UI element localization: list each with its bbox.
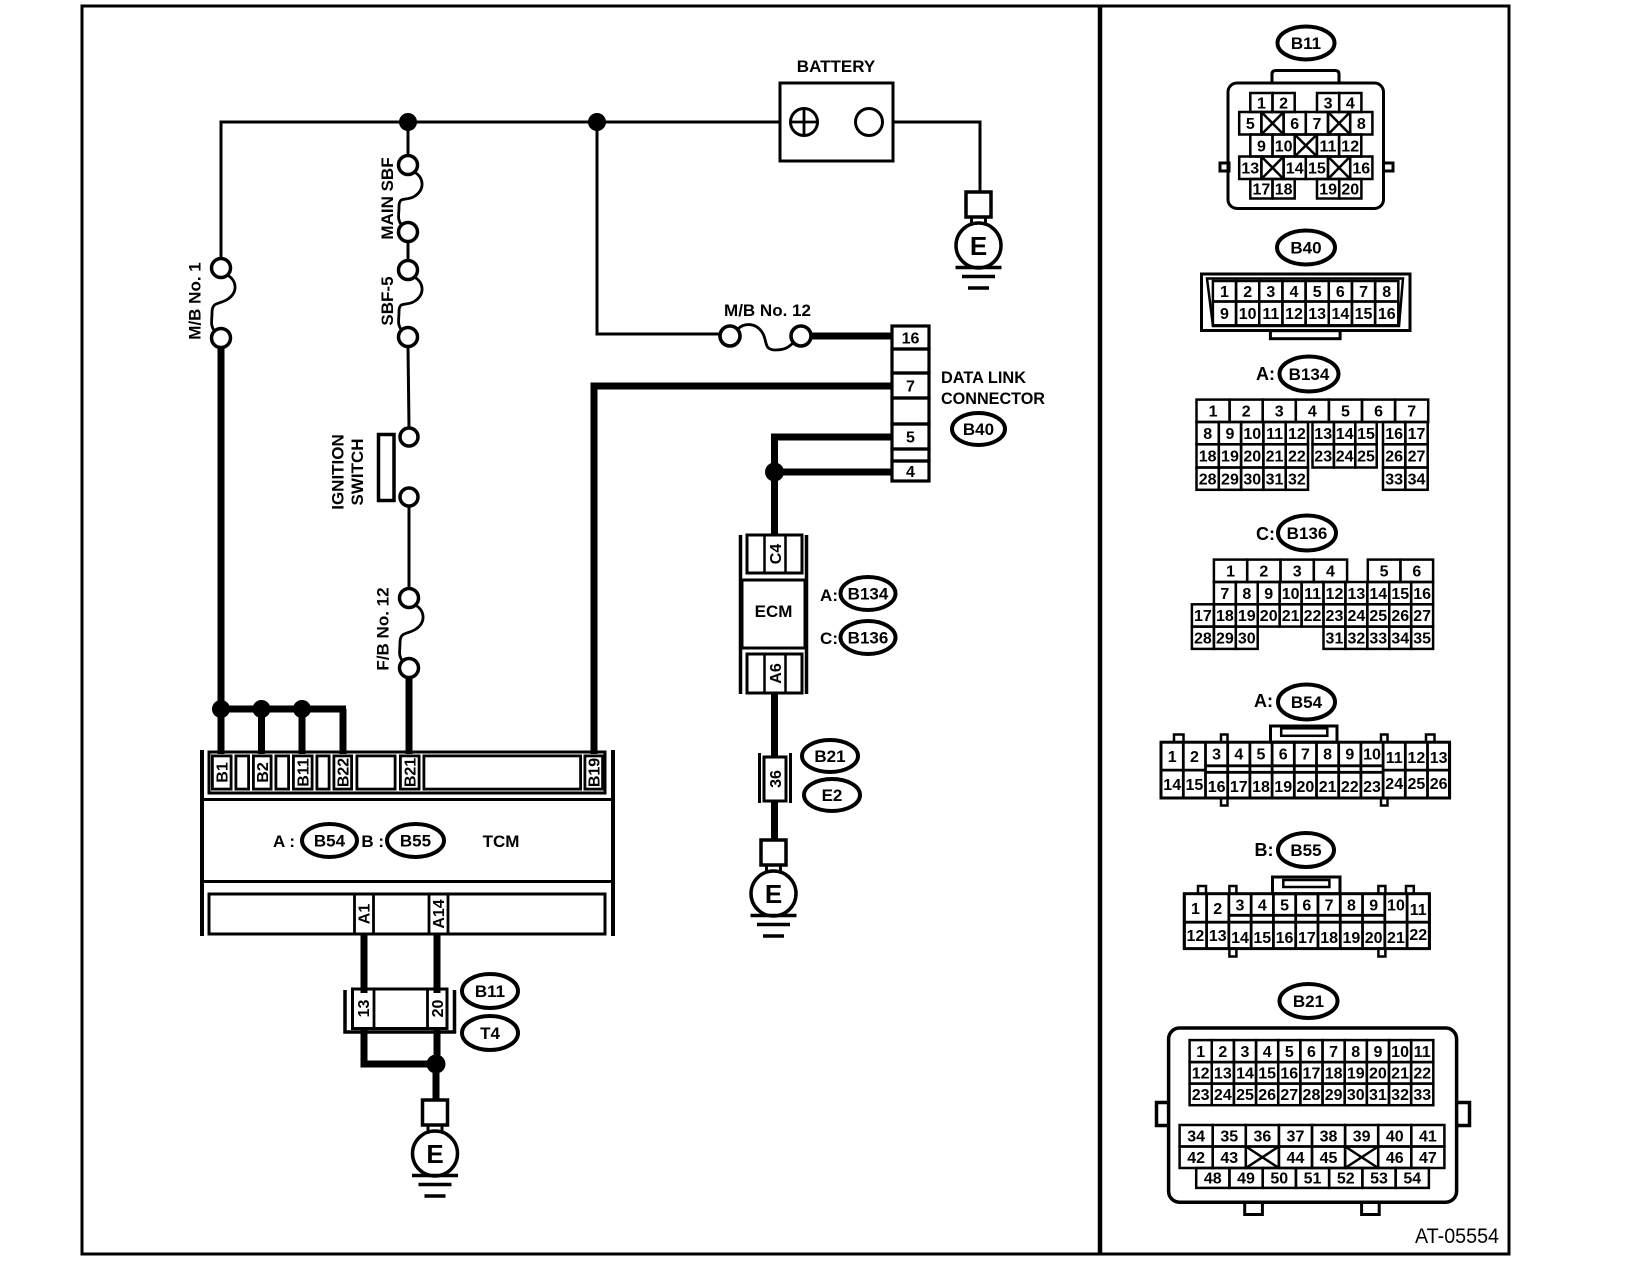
svg-text:5: 5 <box>1246 116 1255 133</box>
svg-text:33: 33 <box>1369 631 1387 648</box>
svg-text:7: 7 <box>906 378 915 395</box>
svg-text:A14: A14 <box>431 899 448 928</box>
svg-text:22: 22 <box>1341 779 1359 796</box>
svg-text:BATTERY: BATTERY <box>797 57 876 76</box>
svg-text:IGNITION: IGNITION <box>329 434 348 510</box>
svg-text:B54: B54 <box>1291 693 1323 712</box>
svg-text:10: 10 <box>1387 897 1405 914</box>
svg-text:B1: B1 <box>215 762 232 783</box>
svg-text:20: 20 <box>1369 1066 1387 1083</box>
svg-text:20: 20 <box>1365 930 1383 947</box>
svg-text:17: 17 <box>1253 182 1271 199</box>
svg-text:36: 36 <box>768 770 785 788</box>
svg-text:11: 11 <box>1410 902 1427 919</box>
svg-text:16: 16 <box>1280 1066 1298 1083</box>
svg-text:18: 18 <box>1275 182 1293 199</box>
svg-text:13: 13 <box>356 1000 373 1018</box>
svg-text:49: 49 <box>1237 1171 1255 1188</box>
svg-text:35: 35 <box>1220 1129 1238 1146</box>
svg-text:24: 24 <box>1347 608 1365 625</box>
svg-text:53: 53 <box>1370 1171 1388 1188</box>
svg-text:E2: E2 <box>822 786 843 805</box>
svg-text:B134: B134 <box>1289 365 1330 384</box>
svg-text:A6: A6 <box>768 663 785 684</box>
svg-text:B:: B: <box>1255 840 1274 860</box>
svg-text:22: 22 <box>1413 1066 1431 1083</box>
svg-text:25: 25 <box>1408 776 1426 793</box>
svg-text:8: 8 <box>1382 284 1391 301</box>
svg-text:B2: B2 <box>255 762 272 783</box>
svg-text:3: 3 <box>1241 1044 1250 1061</box>
svg-text:1: 1 <box>1220 284 1229 301</box>
svg-text:2: 2 <box>1242 404 1251 421</box>
svg-text:8: 8 <box>1357 116 1366 133</box>
svg-text:B54: B54 <box>314 832 346 851</box>
svg-text:A:: A: <box>1256 364 1275 384</box>
svg-text:11: 11 <box>1266 426 1283 443</box>
svg-text:1: 1 <box>1191 901 1200 918</box>
svg-text:B55: B55 <box>400 832 431 851</box>
svg-text:9: 9 <box>1373 1044 1382 1061</box>
svg-text:1: 1 <box>1168 749 1177 766</box>
svg-text:39: 39 <box>1353 1129 1371 1146</box>
svg-text:8: 8 <box>1323 747 1332 764</box>
svg-text:6: 6 <box>1302 897 1311 914</box>
svg-text:17: 17 <box>1194 608 1212 625</box>
svg-text:M/B No. 1: M/B No. 1 <box>186 262 205 339</box>
svg-text:9: 9 <box>1220 306 1229 323</box>
svg-text:34: 34 <box>1187 1129 1205 1146</box>
svg-text:31: 31 <box>1266 471 1284 488</box>
svg-text:1: 1 <box>1209 404 1218 421</box>
svg-text:4: 4 <box>1234 747 1243 764</box>
svg-text:10: 10 <box>1282 586 1300 603</box>
svg-text:9: 9 <box>1345 747 1354 764</box>
svg-text:3: 3 <box>1324 95 1333 112</box>
svg-text:5: 5 <box>1341 404 1350 421</box>
svg-text:17: 17 <box>1230 779 1248 796</box>
svg-text:6: 6 <box>1412 564 1421 581</box>
svg-text:16: 16 <box>1352 161 1370 178</box>
svg-text:36: 36 <box>1253 1129 1271 1146</box>
svg-text:32: 32 <box>1347 631 1365 648</box>
svg-text:1: 1 <box>1257 95 1266 112</box>
svg-text:18: 18 <box>1320 930 1338 947</box>
svg-text:B21: B21 <box>1293 992 1324 1011</box>
svg-text:7: 7 <box>1301 747 1310 764</box>
svg-text:20: 20 <box>1243 449 1261 466</box>
svg-text:5: 5 <box>1380 564 1389 581</box>
svg-text:B21: B21 <box>814 747 845 766</box>
svg-text:30: 30 <box>1347 1087 1365 1104</box>
svg-text:9: 9 <box>1225 426 1234 443</box>
svg-text:33: 33 <box>1413 1087 1431 1104</box>
svg-text:22: 22 <box>1409 927 1427 944</box>
svg-text:25: 25 <box>1357 449 1375 466</box>
svg-text:31: 31 <box>1369 1087 1387 1104</box>
svg-text:12: 12 <box>1187 928 1205 945</box>
svg-text:44: 44 <box>1287 1150 1305 1167</box>
svg-text:4: 4 <box>1290 284 1299 301</box>
svg-text:51: 51 <box>1304 1171 1322 1188</box>
svg-text:28: 28 <box>1303 1087 1321 1104</box>
svg-text:AT-05554: AT-05554 <box>1415 1224 1499 1248</box>
svg-text:8: 8 <box>1203 426 1212 443</box>
svg-text:6: 6 <box>1279 747 1288 764</box>
svg-text:7: 7 <box>1312 116 1321 133</box>
svg-text:B19: B19 <box>587 758 604 787</box>
svg-text:50: 50 <box>1270 1171 1288 1188</box>
svg-text:47: 47 <box>1419 1150 1437 1167</box>
svg-text:C:: C: <box>1256 524 1275 544</box>
svg-text:14: 14 <box>1231 930 1249 947</box>
svg-text:3: 3 <box>1275 404 1284 421</box>
svg-text:24: 24 <box>1214 1087 1232 1104</box>
svg-text:32: 32 <box>1288 471 1306 488</box>
svg-text:27: 27 <box>1280 1087 1298 1104</box>
svg-text:14: 14 <box>1163 777 1181 794</box>
svg-text:12: 12 <box>1192 1066 1210 1083</box>
svg-text:2: 2 <box>1259 564 1268 581</box>
svg-text:27: 27 <box>1413 608 1431 625</box>
svg-text:30: 30 <box>1243 471 1261 488</box>
svg-text:17: 17 <box>1298 930 1316 947</box>
svg-text:B22: B22 <box>336 758 353 787</box>
svg-text:8: 8 <box>1347 897 1356 914</box>
svg-text:11: 11 <box>1262 306 1279 323</box>
svg-text:3: 3 <box>1212 747 1221 764</box>
svg-text:1: 1 <box>1196 1044 1205 1061</box>
svg-text:54: 54 <box>1403 1171 1421 1188</box>
svg-text:A1: A1 <box>357 904 374 925</box>
svg-text:17: 17 <box>1408 426 1426 443</box>
svg-text:B21: B21 <box>403 758 420 787</box>
svg-text:B136: B136 <box>848 629 889 648</box>
svg-text:8: 8 <box>1242 586 1251 603</box>
svg-text:B :: B : <box>361 832 384 851</box>
svg-text:7: 7 <box>1407 404 1416 421</box>
svg-text:MAIN SBF: MAIN SBF <box>378 157 397 239</box>
svg-text:12: 12 <box>1408 750 1426 767</box>
svg-text:19: 19 <box>1221 449 1239 466</box>
svg-text:B55: B55 <box>1290 841 1321 860</box>
svg-text:45: 45 <box>1320 1150 1338 1167</box>
svg-text:2: 2 <box>1218 1044 1227 1061</box>
svg-text:52: 52 <box>1337 1171 1355 1188</box>
svg-text:A :: A : <box>273 832 295 851</box>
svg-text:17: 17 <box>1303 1066 1321 1083</box>
svg-text:22: 22 <box>1288 449 1306 466</box>
svg-text:15: 15 <box>1253 930 1271 947</box>
svg-text:2: 2 <box>1190 749 1199 766</box>
svg-text:15: 15 <box>1357 426 1375 443</box>
svg-text:3: 3 <box>1236 897 1245 914</box>
svg-text:13: 13 <box>1347 586 1365 603</box>
svg-text:12: 12 <box>1341 138 1359 155</box>
svg-text:8: 8 <box>1351 1044 1360 1061</box>
svg-text:25: 25 <box>1369 608 1387 625</box>
svg-text:33: 33 <box>1385 471 1403 488</box>
svg-text:38: 38 <box>1320 1129 1338 1146</box>
svg-text:9: 9 <box>1369 897 1378 914</box>
svg-text:9: 9 <box>1257 138 1266 155</box>
svg-text:2: 2 <box>1213 901 1222 918</box>
svg-text:F/B No. 12: F/B No. 12 <box>374 587 393 670</box>
svg-text:15: 15 <box>1186 777 1204 794</box>
svg-text:16: 16 <box>1413 586 1431 603</box>
svg-text:E: E <box>765 879 782 909</box>
svg-text:22: 22 <box>1304 608 1322 625</box>
svg-text:16: 16 <box>902 330 920 347</box>
svg-text:18: 18 <box>1325 1066 1343 1083</box>
svg-text:21: 21 <box>1391 1066 1409 1083</box>
svg-text:15: 15 <box>1391 586 1409 603</box>
svg-text:29: 29 <box>1221 471 1239 488</box>
svg-text:25: 25 <box>1236 1087 1254 1104</box>
svg-text:5: 5 <box>906 429 915 446</box>
svg-text:7: 7 <box>1220 586 1229 603</box>
svg-text:15: 15 <box>1308 161 1326 178</box>
svg-text:11: 11 <box>1320 138 1337 155</box>
svg-text:A:: A: <box>1254 691 1273 711</box>
svg-text:4: 4 <box>1346 95 1355 112</box>
svg-text:7: 7 <box>1325 897 1334 914</box>
svg-text:19: 19 <box>1319 182 1337 199</box>
svg-text:28: 28 <box>1199 471 1217 488</box>
svg-text:B136: B136 <box>1287 524 1328 543</box>
svg-text:5: 5 <box>1285 1044 1294 1061</box>
svg-text:48: 48 <box>1204 1171 1222 1188</box>
svg-text:C:: C: <box>820 629 838 648</box>
svg-text:10: 10 <box>1243 426 1261 443</box>
svg-text:20: 20 <box>1297 779 1315 796</box>
svg-text:4: 4 <box>1263 1044 1272 1061</box>
svg-text:24: 24 <box>1385 776 1403 793</box>
svg-text:16: 16 <box>1208 779 1226 796</box>
svg-text:19: 19 <box>1347 1066 1365 1083</box>
svg-text:16: 16 <box>1276 930 1294 947</box>
svg-text:10: 10 <box>1391 1044 1409 1061</box>
svg-text:28: 28 <box>1194 631 1212 648</box>
svg-text:13: 13 <box>1308 306 1326 323</box>
svg-text:26: 26 <box>1430 776 1448 793</box>
svg-text:1: 1 <box>1226 564 1235 581</box>
svg-text:3: 3 <box>1266 284 1275 301</box>
svg-text:5: 5 <box>1280 897 1289 914</box>
svg-text:26: 26 <box>1385 449 1403 466</box>
svg-text:23: 23 <box>1326 608 1344 625</box>
svg-text:16: 16 <box>1378 306 1396 323</box>
svg-text:ECM: ECM <box>755 602 793 621</box>
svg-text:E: E <box>970 231 987 261</box>
svg-text:21: 21 <box>1266 449 1284 466</box>
svg-text:31: 31 <box>1326 631 1344 648</box>
svg-text:19: 19 <box>1238 608 1256 625</box>
svg-text:21: 21 <box>1282 608 1300 625</box>
svg-text:4: 4 <box>906 464 915 481</box>
svg-text:10: 10 <box>1363 747 1381 764</box>
svg-text:CONNECTOR: CONNECTOR <box>941 389 1045 408</box>
svg-text:B40: B40 <box>1290 239 1321 258</box>
svg-text:30: 30 <box>1238 631 1256 648</box>
svg-text:37: 37 <box>1287 1129 1305 1146</box>
svg-text:43: 43 <box>1220 1150 1238 1167</box>
svg-text:TCM: TCM <box>483 832 520 851</box>
svg-text:13: 13 <box>1430 750 1448 767</box>
svg-text:6: 6 <box>1290 116 1299 133</box>
svg-text:B40: B40 <box>963 420 994 439</box>
svg-text:19: 19 <box>1274 779 1292 796</box>
svg-text:E: E <box>426 1139 443 1169</box>
svg-text:24: 24 <box>1336 449 1354 466</box>
svg-text:5: 5 <box>1257 747 1266 764</box>
svg-text:23: 23 <box>1363 779 1381 796</box>
svg-text:A:: A: <box>820 586 838 605</box>
svg-text:42: 42 <box>1187 1150 1205 1167</box>
svg-text:B11: B11 <box>475 982 505 1001</box>
svg-text:7: 7 <box>1329 1044 1338 1061</box>
svg-text:32: 32 <box>1391 1087 1409 1104</box>
svg-text:T4: T4 <box>480 1024 500 1043</box>
svg-text:18: 18 <box>1252 779 1270 796</box>
svg-text:6: 6 <box>1374 404 1383 421</box>
svg-text:20: 20 <box>430 1000 447 1018</box>
svg-text:10: 10 <box>1275 138 1293 155</box>
svg-text:3: 3 <box>1293 564 1302 581</box>
svg-text:DATA LINK: DATA LINK <box>941 368 1027 387</box>
svg-text:6: 6 <box>1336 284 1345 301</box>
svg-text:SBF-5: SBF-5 <box>378 276 397 325</box>
svg-text:7: 7 <box>1359 284 1368 301</box>
svg-text:15: 15 <box>1355 306 1373 323</box>
svg-text:SWITCH: SWITCH <box>348 438 367 505</box>
svg-text:29: 29 <box>1216 631 1234 648</box>
svg-text:12: 12 <box>1326 586 1344 603</box>
svg-text:18: 18 <box>1199 449 1217 466</box>
svg-text:41: 41 <box>1419 1129 1437 1146</box>
svg-text:21: 21 <box>1387 930 1405 947</box>
svg-text:26: 26 <box>1391 608 1409 625</box>
svg-text:23: 23 <box>1314 449 1332 466</box>
svg-text:5: 5 <box>1313 284 1322 301</box>
svg-text:B11: B11 <box>296 758 313 787</box>
svg-text:40: 40 <box>1386 1129 1404 1146</box>
svg-text:2: 2 <box>1243 284 1252 301</box>
svg-text:34: 34 <box>1391 631 1409 648</box>
svg-text:4: 4 <box>1308 404 1317 421</box>
svg-text:20: 20 <box>1341 182 1359 199</box>
svg-text:M/B No. 12: M/B No. 12 <box>724 301 811 320</box>
svg-text:15: 15 <box>1258 1066 1276 1083</box>
svg-text:21: 21 <box>1319 779 1337 796</box>
svg-text:C4: C4 <box>768 544 785 565</box>
svg-text:B134: B134 <box>848 585 889 604</box>
svg-text:13: 13 <box>1314 426 1332 443</box>
svg-text:13: 13 <box>1209 928 1227 945</box>
svg-text:34: 34 <box>1408 471 1426 488</box>
svg-text:46: 46 <box>1386 1150 1404 1167</box>
svg-text:29: 29 <box>1325 1087 1343 1104</box>
svg-text:18: 18 <box>1216 608 1234 625</box>
svg-text:19: 19 <box>1343 930 1361 947</box>
svg-text:13: 13 <box>1214 1066 1232 1083</box>
svg-text:4: 4 <box>1258 897 1267 914</box>
svg-text:35: 35 <box>1413 631 1431 648</box>
svg-text:12: 12 <box>1285 306 1303 323</box>
svg-text:20: 20 <box>1260 608 1278 625</box>
svg-text:9: 9 <box>1264 586 1273 603</box>
svg-text:27: 27 <box>1408 449 1426 466</box>
svg-text:14: 14 <box>1286 161 1304 178</box>
svg-text:14: 14 <box>1336 426 1354 443</box>
svg-text:14: 14 <box>1369 586 1387 603</box>
svg-text:B11: B11 <box>1291 34 1321 53</box>
svg-text:6: 6 <box>1307 1044 1316 1061</box>
svg-text:11: 11 <box>1386 750 1403 767</box>
svg-text:23: 23 <box>1192 1087 1210 1104</box>
svg-text:11: 11 <box>1304 586 1321 603</box>
svg-text:4: 4 <box>1326 564 1335 581</box>
svg-text:13: 13 <box>1241 161 1259 178</box>
svg-text:26: 26 <box>1258 1087 1276 1104</box>
svg-text:2: 2 <box>1279 95 1288 112</box>
svg-text:16: 16 <box>1385 426 1403 443</box>
svg-text:11: 11 <box>1414 1044 1431 1061</box>
svg-text:12: 12 <box>1288 426 1306 443</box>
svg-text:10: 10 <box>1239 306 1257 323</box>
svg-text:14: 14 <box>1331 306 1349 323</box>
svg-text:14: 14 <box>1236 1066 1254 1083</box>
